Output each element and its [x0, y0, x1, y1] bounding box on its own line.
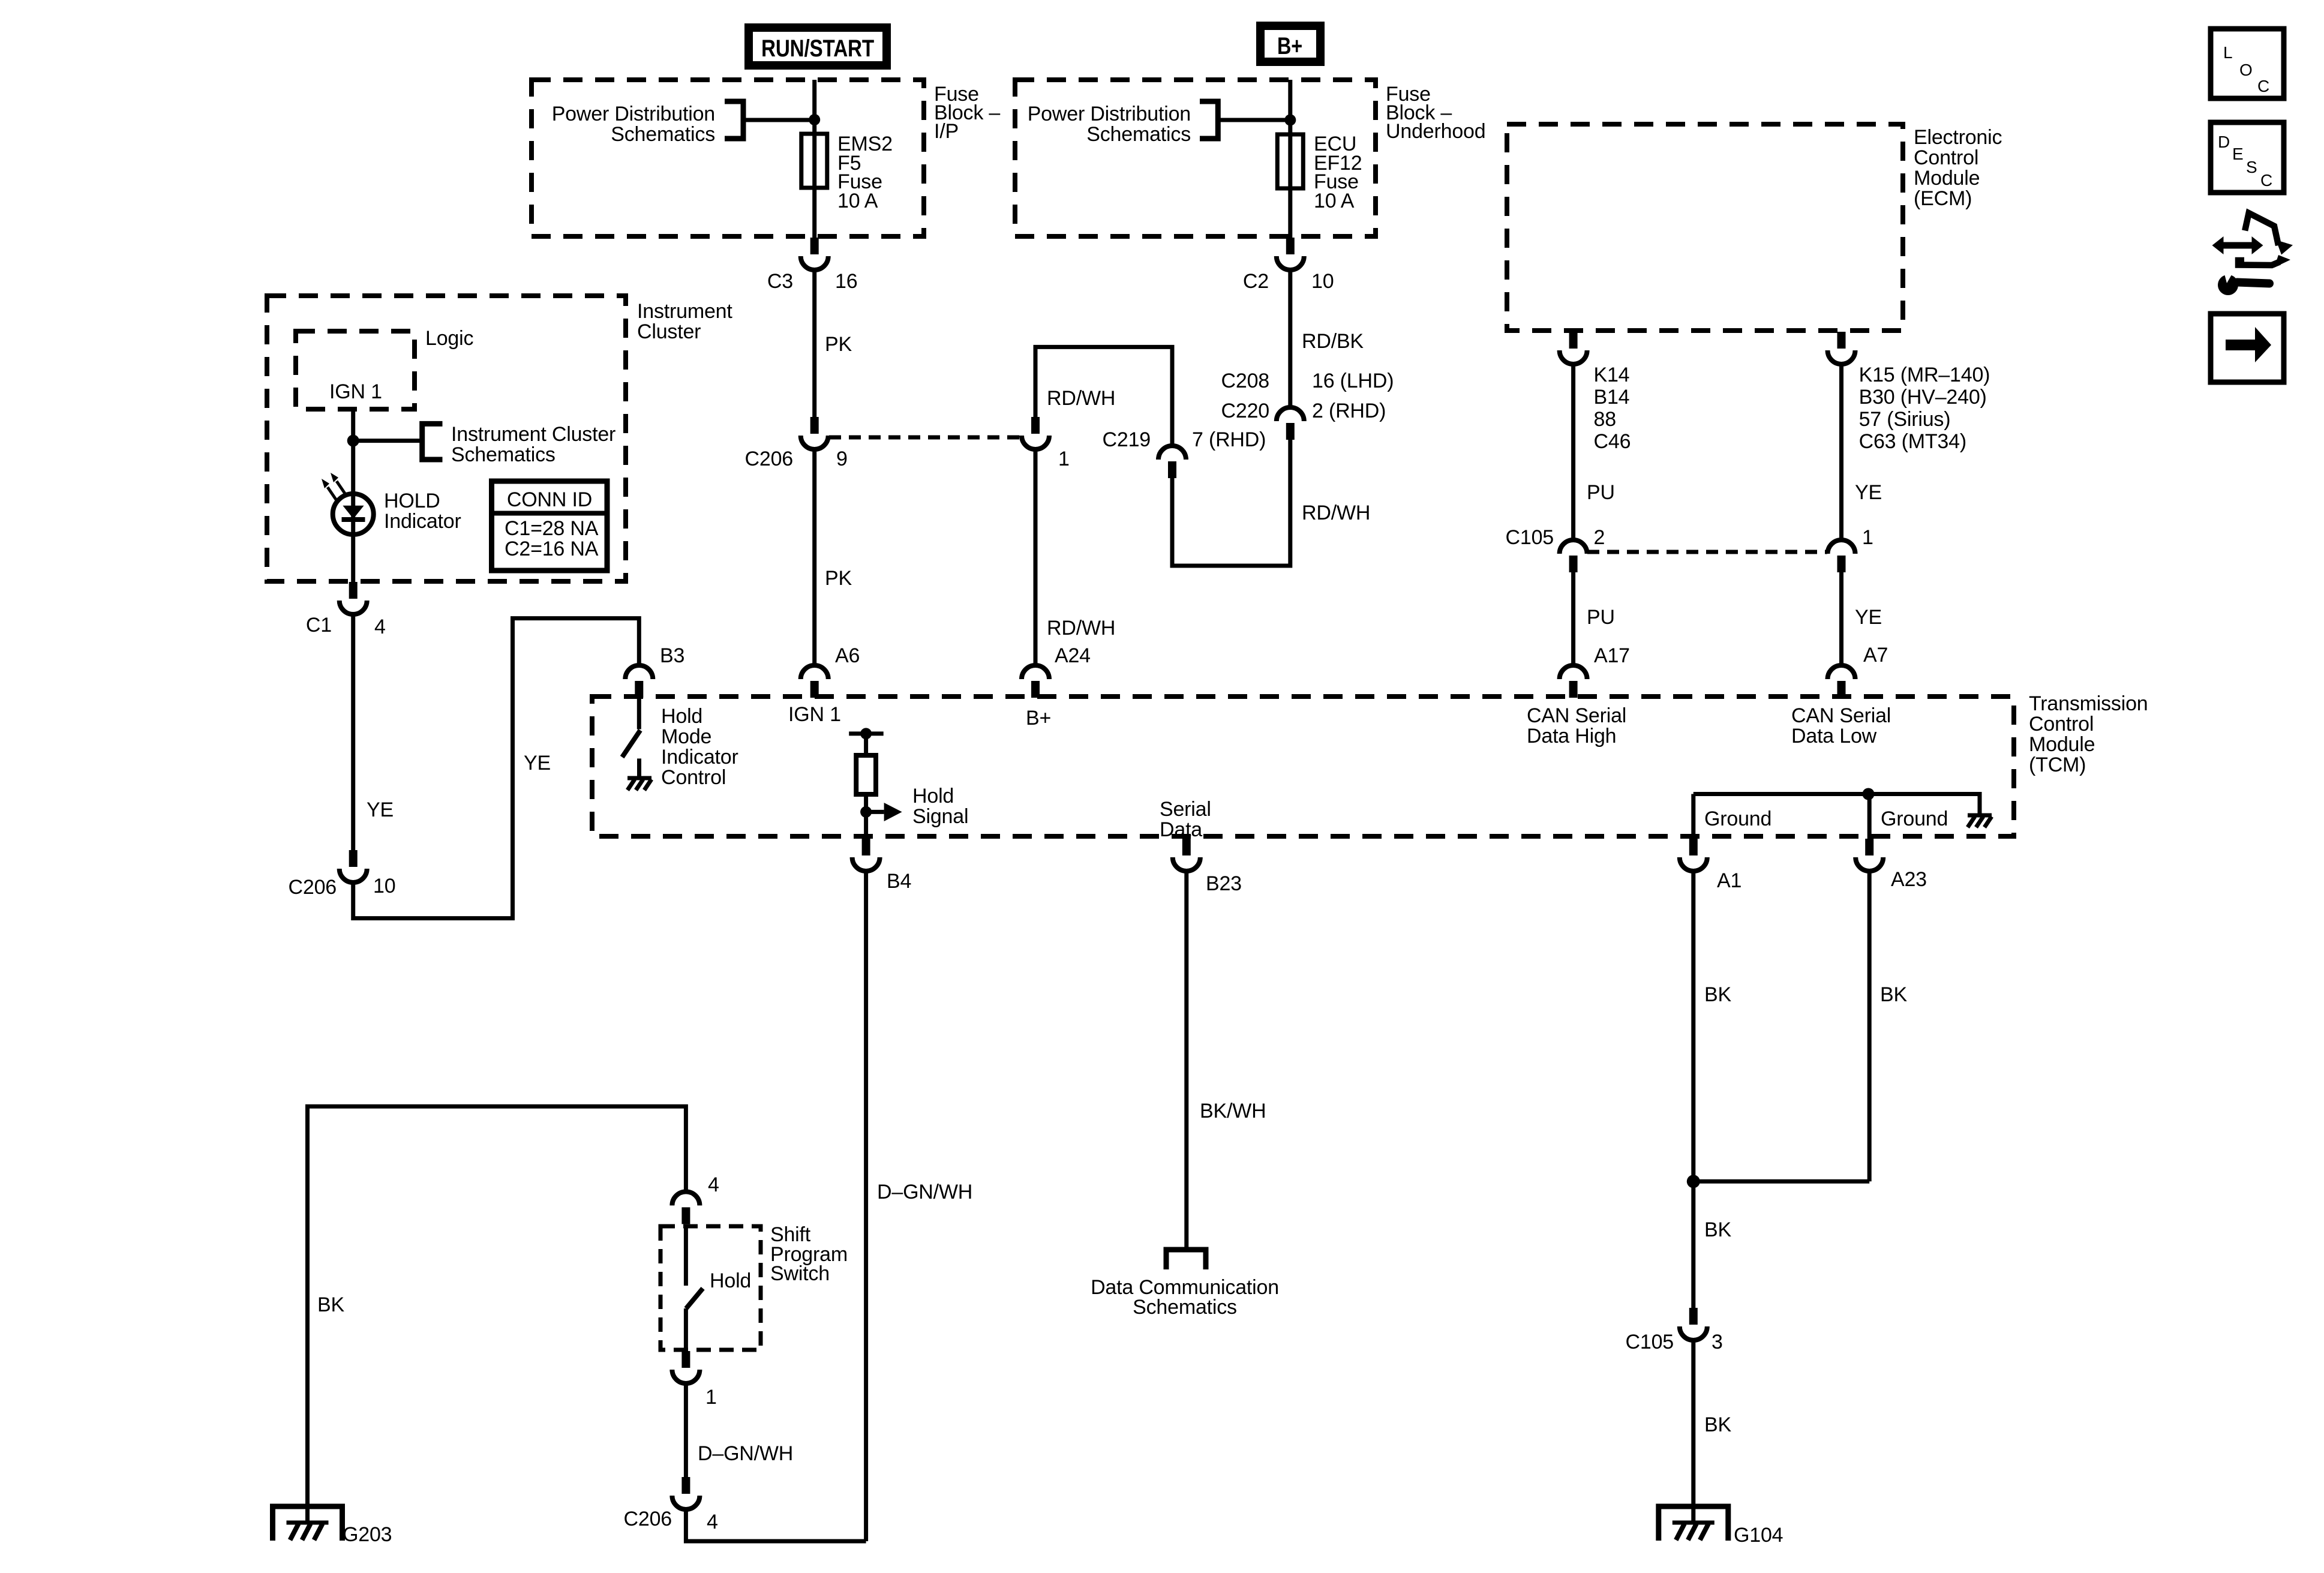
- svg-text:CAN Serial: CAN Serial: [1527, 704, 1626, 727]
- svg-text:Switch: Switch: [770, 1262, 830, 1285]
- bracket Power Distribution Schematics (I/P): [725, 101, 743, 139]
- junction node BK merge: [1687, 1175, 1700, 1188]
- connector C219 pin 7: [1158, 446, 1186, 478]
- connector C105 pin 2: [1560, 540, 1587, 572]
- wire YE C1 to C206: [351, 614, 355, 850]
- wire resistor to B4: [864, 794, 868, 839]
- wire YE C105 to A7: [1839, 572, 1843, 665]
- svg-text:RD/WH: RD/WH: [1047, 617, 1115, 640]
- icon DESC box: [2211, 122, 2284, 193]
- svg-text:Instrument: Instrument: [637, 300, 732, 323]
- svg-text:C208: C208: [1221, 370, 1269, 392]
- svg-text:C105: C105: [1506, 526, 1554, 549]
- power label RUN/START: [749, 28, 887, 65]
- svg-text:CONN ID: CONN ID: [507, 488, 592, 511]
- junction node ECU feed: [1284, 115, 1296, 126]
- svg-text:Cluster: Cluster: [637, 320, 701, 343]
- wire BK A1 down: [1691, 871, 1695, 1181]
- svg-text:A7: A7: [1863, 644, 1888, 667]
- bracket Power Distribution Schematics (underhood): [1200, 101, 1218, 139]
- connector C105 pin 1: [1828, 540, 1855, 572]
- LED arrows: [322, 473, 347, 502]
- wire A23 to merge: [1694, 1179, 1869, 1184]
- svg-text:RUN/START: RUN/START: [761, 35, 874, 62]
- svg-text:S: S: [2246, 158, 2257, 176]
- arrowhead hold signal: [884, 803, 902, 821]
- svg-text:1: 1: [1862, 526, 1873, 549]
- svg-text:Transmission: Transmission: [2029, 692, 2148, 715]
- junction node resistor top: [860, 728, 872, 739]
- switch hold contact: [684, 1228, 688, 1286]
- wire BK/WH B23 down: [1184, 871, 1188, 1250]
- svg-text:Indicator: Indicator: [384, 510, 461, 533]
- svg-text:C46: C46: [1594, 430, 1631, 453]
- wire bracket to ECU junction: [1218, 118, 1290, 122]
- svg-text:10 A: 10 A: [1314, 190, 1355, 212]
- svg-text:10: 10: [1311, 270, 1334, 293]
- wire D-GN/WH 1 to C206: [684, 1383, 688, 1477]
- svg-text:BK: BK: [317, 1293, 344, 1316]
- svg-text:A17: A17: [1594, 644, 1630, 667]
- switch Hold Mode Indicator Control: [622, 698, 640, 777]
- wire BK A23 down: [1867, 871, 1872, 1181]
- svg-text:RD/WH: RD/WH: [1302, 502, 1370, 524]
- instrument cluster dashed box: [267, 296, 626, 581]
- svg-text:4: 4: [708, 1173, 719, 1196]
- junction node hold signal tap: [860, 806, 872, 818]
- icon arrow box: [2211, 314, 2284, 382]
- svg-text:57 (Sirius): 57 (Sirius): [1859, 408, 1951, 431]
- wire PK C3 to C206: [812, 270, 816, 417]
- svg-text:2 (RHD): 2 (RHD): [1312, 400, 1386, 422]
- svg-text:A24: A24: [1055, 644, 1091, 667]
- svg-text:K15 (MR–140): K15 (MR–140): [1859, 364, 1990, 386]
- connector A23: [1855, 839, 1883, 871]
- svg-text:L: L: [2223, 43, 2232, 62]
- svg-text:4: 4: [374, 616, 386, 638]
- svg-text:O: O: [2239, 61, 2253, 79]
- svg-text:Mode: Mode: [661, 725, 711, 748]
- svg-text:G203: G203: [343, 1523, 392, 1546]
- svg-text:C: C: [2257, 77, 2269, 95]
- svg-text:BK/WH: BK/WH: [1200, 1100, 1266, 1122]
- wire blade to pin: [684, 1308, 688, 1351]
- svg-text:Ground: Ground: [1704, 807, 1771, 830]
- connector C2 pin 10: [1277, 238, 1304, 270]
- resistor (hold signal): [856, 755, 876, 794]
- bracket Instrument Cluster Schematics: [422, 424, 443, 460]
- wire bottom join to B4 wire: [686, 1509, 866, 1541]
- svg-text:Power Distribution: Power Distribution: [552, 103, 715, 125]
- svg-text:PK: PK: [825, 567, 852, 590]
- svg-text:D: D: [2218, 133, 2230, 151]
- svg-text:C1=28 NA: C1=28 NA: [505, 517, 599, 540]
- wire PK C206 to A6: [812, 449, 816, 665]
- connector C206 pin 9: [801, 417, 828, 449]
- junction node cluster tap: [347, 435, 359, 447]
- connector K15 (ECM out): [1828, 332, 1855, 364]
- fuse EMS2 F5 10A: [801, 134, 827, 188]
- svg-text:10 A: 10 A: [837, 190, 878, 212]
- ground (hold mode switch): [627, 778, 651, 790]
- connector K14 (ECM out): [1560, 332, 1587, 364]
- svg-text:Data Low: Data Low: [1791, 725, 1877, 748]
- connector C208/C220: [1277, 407, 1304, 440]
- svg-text:BK: BK: [1704, 1413, 1731, 1436]
- svg-text:Logic: Logic: [425, 327, 473, 350]
- svg-text:IGN 1: IGN 1: [788, 703, 841, 726]
- terminator serial data off-page: [1166, 1250, 1206, 1269]
- wire YE C206 up to B3: [353, 619, 639, 918]
- svg-text:HOLD: HOLD: [384, 490, 440, 512]
- svg-text:B30 (HV–240): B30 (HV–240): [1859, 386, 1987, 409]
- wire bracket to EMS2 junction: [743, 118, 815, 122]
- svg-text:1: 1: [1058, 448, 1070, 470]
- svg-text:YE: YE: [524, 752, 551, 775]
- svg-text:Data High: Data High: [1527, 725, 1616, 748]
- TCM dashed box: [592, 697, 2014, 836]
- svg-text:7 (RHD): 7 (RHD): [1192, 428, 1266, 451]
- LED HOLD indicator: [333, 494, 374, 535]
- logic dashed box: [296, 331, 415, 409]
- svg-text:C2=16 NA: C2=16 NA: [505, 538, 599, 560]
- resistor hold signal network T-bar: [849, 731, 884, 736]
- svg-text:RD/BK: RD/BK: [1302, 330, 1364, 353]
- wire T-bar to resistor: [864, 734, 868, 755]
- svg-text:Signal: Signal: [912, 805, 968, 828]
- svg-text:PU: PU: [1587, 606, 1615, 629]
- connector B3: [625, 665, 653, 698]
- svg-text:C63 (MT34): C63 (MT34): [1859, 430, 1966, 453]
- icon LOC box: [2211, 29, 2284, 98]
- connector A7: [1828, 665, 1855, 698]
- svg-text:D–GN/WH: D–GN/WH: [698, 1442, 793, 1465]
- wire YE K15 to C105: [1839, 364, 1843, 540]
- svg-text:C220: C220: [1221, 400, 1269, 422]
- svg-text:K14: K14: [1594, 364, 1630, 386]
- svg-text:Schematics: Schematics: [1086, 123, 1191, 146]
- connector C1 pin 4: [340, 582, 367, 614]
- svg-text:Schematics: Schematics: [1133, 1296, 1237, 1319]
- connector C3 pin 16: [801, 238, 828, 270]
- ground (TCM internal): [1968, 815, 1992, 827]
- svg-text:2: 2: [1594, 526, 1605, 549]
- svg-text:16 (LHD): 16 (LHD): [1312, 370, 1394, 392]
- wire IGN1 logic to cluster exit: [351, 409, 355, 582]
- connector C206 pin 10: [340, 850, 367, 882]
- ECM dashed box: [1507, 124, 1903, 331]
- power label B+: [1260, 26, 1320, 62]
- connector C105 pin 3: [1680, 1308, 1707, 1340]
- switch blade: [686, 1289, 703, 1309]
- wire RD/BK C2 to C208: [1288, 270, 1292, 407]
- svg-text:C1: C1: [306, 614, 332, 637]
- connector A1: [1680, 839, 1707, 871]
- wire D-GN/WH B4 down: [864, 871, 868, 1541]
- svg-text:B+: B+: [1277, 33, 1302, 59]
- svg-text:C105: C105: [1626, 1331, 1674, 1353]
- icon double arrow with outline: [2212, 213, 2293, 268]
- svg-text:C206: C206: [624, 1508, 672, 1530]
- svg-text:Ground: Ground: [1881, 807, 1948, 830]
- svg-text:PU: PU: [1587, 481, 1615, 504]
- fuse block Underhood dashed box: [1015, 80, 1376, 236]
- svg-text:Serial: Serial: [1160, 798, 1211, 821]
- ground G203: [273, 1506, 343, 1541]
- svg-text:A23: A23: [1891, 868, 1927, 891]
- wire RD/WH C219 up over to 1 connector: [1035, 347, 1172, 446]
- connector A6: [801, 665, 828, 698]
- svg-text:BK: BK: [1704, 1218, 1731, 1241]
- svg-text:Control: Control: [661, 766, 726, 789]
- svg-text:Control: Control: [1914, 146, 1978, 169]
- svg-text:C3: C3: [767, 270, 793, 293]
- svg-text:88: 88: [1594, 408, 1616, 431]
- wire TCM ground bus: [1694, 794, 1980, 815]
- svg-text:D–GN/WH: D–GN/WH: [877, 1181, 972, 1203]
- svg-text:Hold: Hold: [912, 785, 954, 807]
- shift program switch dashed box: [660, 1226, 761, 1350]
- svg-text:Electronic: Electronic: [1914, 126, 2002, 149]
- svg-text:Control: Control: [2029, 713, 2094, 736]
- wire PU K14 to C105: [1571, 364, 1575, 540]
- svg-text:YE: YE: [367, 798, 394, 821]
- svg-text:Schematics: Schematics: [611, 123, 715, 146]
- svg-text:Data: Data: [1160, 818, 1202, 841]
- svg-text:3: 3: [1712, 1331, 1723, 1353]
- connector B4: [852, 839, 880, 871]
- svg-text:B4: B4: [887, 870, 911, 893]
- svg-text:B23: B23: [1206, 872, 1242, 895]
- CONN ID table: [492, 481, 608, 571]
- svg-text:(TCM): (TCM): [2029, 754, 2086, 776]
- svg-text:B14: B14: [1594, 386, 1630, 409]
- jumper C206 dashed: [829, 436, 1021, 440]
- svg-text:C219: C219: [1103, 428, 1151, 451]
- svg-text:9: 9: [836, 448, 848, 470]
- jumper C105 dashed: [1587, 550, 1827, 554]
- wire RD/WH C208 down and left to C219: [1172, 440, 1290, 566]
- wire tap to bracket: [353, 439, 422, 443]
- svg-text:Indicator: Indicator: [661, 746, 738, 769]
- svg-text:Hold: Hold: [661, 705, 702, 728]
- svg-text:C206: C206: [289, 876, 337, 899]
- icon wrench: [2218, 267, 2269, 295]
- svg-text:C206: C206: [745, 448, 793, 470]
- svg-text:CAN Serial: CAN Serial: [1791, 704, 1891, 727]
- fuse ECU EF12 10A: [1277, 134, 1303, 188]
- wire BK C105 to G104: [1691, 1340, 1695, 1523]
- wire PU C105 to A17: [1571, 572, 1575, 665]
- svg-text:Underhood: Underhood: [1386, 120, 1485, 143]
- ground G104: [1659, 1506, 1728, 1541]
- svg-text:4: 4: [707, 1511, 718, 1533]
- junction node EMS2 feed: [809, 114, 820, 125]
- wire hold signal arrow: [866, 810, 884, 814]
- svg-text:E: E: [2232, 145, 2243, 163]
- connector C206 pin 4: [672, 1477, 699, 1509]
- connector 4 (shift switch): [672, 1191, 699, 1224]
- svg-text:IGN 1: IGN 1: [329, 380, 382, 403]
- svg-text:C: C: [2260, 171, 2272, 190]
- svg-text:Power Distribution: Power Distribution: [1028, 103, 1191, 125]
- svg-text:(ECM): (ECM): [1914, 187, 1972, 210]
- wire A1 stub: [1691, 794, 1695, 839]
- svg-text:Instrument Cluster: Instrument Cluster: [451, 423, 615, 446]
- wire A23 stub: [1867, 794, 1872, 839]
- connector A24: [1022, 665, 1049, 698]
- svg-text:B+: B+: [1026, 707, 1051, 730]
- svg-text:16: 16: [835, 270, 857, 293]
- svg-text:G104: G104: [1734, 1524, 1783, 1547]
- svg-text:A1: A1: [1717, 869, 1742, 892]
- wire RD/WH 1 to A24: [1034, 449, 1038, 665]
- svg-text:C2: C2: [1243, 270, 1269, 293]
- connector 1 (fuse block out): [1022, 417, 1049, 449]
- svg-text:I/P: I/P: [934, 120, 959, 143]
- wire BK merge to C105: [1691, 1181, 1695, 1308]
- wire B+ feed into underhood fuse block: [1288, 80, 1292, 238]
- svg-text:YE: YE: [1855, 481, 1882, 504]
- svg-text:Module: Module: [1914, 167, 1980, 190]
- connector A17: [1560, 665, 1587, 698]
- connector B23: [1173, 839, 1200, 871]
- svg-text:Module: Module: [2029, 733, 2095, 756]
- svg-text:Hold: Hold: [710, 1269, 751, 1292]
- fuse block I/P dashed box: [532, 80, 924, 236]
- svg-text:BK: BK: [1704, 983, 1731, 1006]
- wire RUN/START feed into fuse block: [812, 80, 816, 238]
- wire shift switch top run: [308, 1106, 686, 1523]
- svg-text:RD/WH: RD/WH: [1047, 387, 1115, 410]
- connector 1 (shift switch): [672, 1351, 699, 1383]
- svg-text:PK: PK: [825, 333, 852, 356]
- svg-text:YE: YE: [1855, 606, 1882, 629]
- svg-text:10: 10: [373, 875, 395, 897]
- junction node ground bus A23: [1863, 788, 1875, 800]
- svg-text:A6: A6: [835, 644, 860, 667]
- svg-text:BK: BK: [1880, 983, 1907, 1006]
- svg-text:1: 1: [705, 1386, 717, 1409]
- svg-text:Schematics: Schematics: [451, 443, 556, 466]
- svg-text:B3: B3: [660, 644, 684, 667]
